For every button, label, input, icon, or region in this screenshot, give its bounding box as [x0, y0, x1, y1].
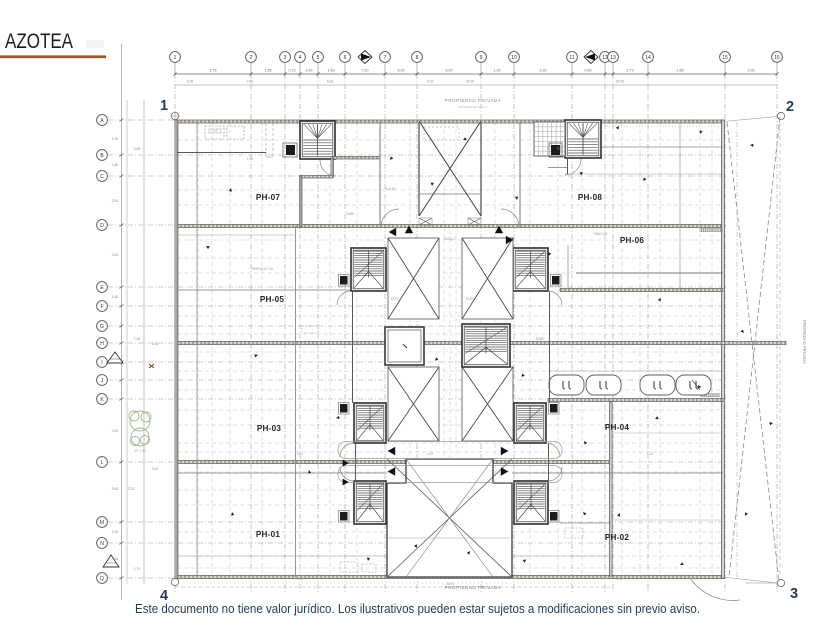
elevator shaft lower-right	[462, 367, 513, 441]
svg-text:ELEV: ELEV	[466, 297, 475, 301]
svg-text:3.40: 3.40	[112, 253, 119, 257]
svg-text:3.20: 3.20	[446, 69, 453, 73]
equipment box core f	[549, 511, 560, 523]
PH-07 closet dashed vertical b	[272, 123, 274, 157]
title underline	[0, 55, 106, 58]
entry arrow b	[405, 226, 413, 234]
driveway arc bottom-right	[690, 578, 740, 600]
interior wall row L	[178, 461, 611, 464]
PH-07 closet dashed vertical a	[265, 123, 267, 157]
svg-text:SUBE: SUBE	[346, 212, 355, 216]
PH-08 closet L-wall	[553, 123, 565, 139]
svg-text:5.10: 5.10	[327, 80, 334, 84]
PH-05 lower edge line	[177, 289, 388, 291]
door arc core mid-left	[340, 443, 354, 457]
svg-text:2.20: 2.20	[128, 487, 135, 491]
svg-text:PH-08: PH-08	[578, 193, 602, 202]
PH-01 lower shelf line	[177, 555, 611, 557]
dimension numbers row2	[187, 80, 625, 84]
entry arrow i	[343, 460, 349, 467]
svg-text:16: 16	[774, 55, 780, 61]
PH-06 interior line	[576, 272, 723, 274]
below-building offset dashed line	[175, 586, 611, 588]
PH-08 vertical service line	[679, 123, 681, 290]
svg-text:F: F	[100, 304, 103, 310]
svg-text:24.99: 24.99	[466, 80, 475, 84]
door arc PH-08 stair	[565, 159, 581, 175]
stairwell core upper-right	[513, 248, 548, 291]
PH-08 stub wall horizontal	[548, 167, 568, 169]
svg-text:3.75: 3.75	[210, 69, 217, 73]
pill 4 slash	[692, 380, 700, 390]
PH-07 partition horizontal	[177, 152, 266, 154]
svg-text:1.60: 1.60	[112, 163, 119, 167]
door arc core mid-left-upper	[337, 291, 351, 305]
door arc core mid-right	[546, 443, 560, 457]
property offset line right	[736, 122, 738, 577]
svg-text:1.20: 1.20	[647, 452, 653, 456]
svg-text:7.60: 7.60	[247, 80, 254, 84]
svg-text:13: 13	[610, 55, 616, 61]
equipment box PH-07 stair	[283, 143, 297, 157]
svg-text:G: G	[100, 324, 104, 330]
svg-text:PH-02: PH-02	[605, 533, 629, 542]
core left spine wall upper	[352, 291, 354, 403]
core right spine wall upper	[549, 291, 551, 403]
interior vertical wall right wing	[610, 402, 613, 576]
corridor outline lower	[338, 466, 562, 483]
svg-text:M: M	[100, 520, 104, 526]
svg-text:C: C	[100, 174, 104, 180]
PH-08 stub wall vertical	[567, 158, 569, 174]
faint smudge right of title	[86, 40, 104, 48]
svg-text:1.20: 1.20	[297, 577, 303, 581]
roof tub 1	[549, 375, 584, 395]
svg-text:3.30: 3.30	[540, 69, 547, 73]
dotted row under top wall right	[603, 125, 720, 127]
svg-text:PH-07: PH-07	[256, 193, 280, 202]
svg-text:0.90: 0.90	[557, 147, 563, 151]
svg-text:I: I	[101, 360, 102, 366]
svg-text:1.55: 1.55	[247, 157, 253, 161]
wall right of central shaft zone	[519, 122, 521, 226]
svg-text:9.30: 9.30	[398, 69, 405, 73]
svg-text:TINACOS: TINACOS	[593, 232, 607, 236]
PH-07 alcove wall right	[331, 158, 334, 177]
dashed cabinet PH-05	[302, 326, 318, 333]
svg-text:1.69: 1.69	[328, 69, 335, 73]
bottom shaft X brace d	[406, 459, 493, 577]
entry arrow h	[501, 467, 509, 475]
corner point 3	[777, 579, 784, 586]
door arc core low-left	[340, 467, 354, 481]
svg-text:0.73: 0.73	[289, 69, 296, 73]
svg-text:N.P.T.: N.P.T.	[201, 342, 209, 346]
tiled bathroom	[534, 122, 565, 156]
dashed box PH-02	[565, 528, 583, 538]
left dimension line 2	[143, 100, 145, 584]
central shaft X brace	[419, 121, 481, 216]
vertical grid lines	[175, 63, 777, 592]
corner point 2	[777, 112, 784, 119]
central shaft left wall	[418, 123, 420, 216]
outer wall top	[175, 120, 723, 123]
svg-text:2.73: 2.73	[627, 69, 634, 73]
core right spine wall lower	[548, 443, 550, 481]
svg-text:0.90: 0.90	[297, 452, 303, 456]
bottom shaft mid line	[387, 537, 512, 539]
comb detail right of wall D	[700, 229, 722, 232]
svg-text:PASILLO: PASILLO	[443, 237, 457, 241]
leader to corner 2	[723, 117, 777, 122]
left dimension numbers	[112, 137, 159, 571]
survey triangle lower	[103, 555, 119, 567]
interior wall row H	[178, 342, 786, 345]
left vertical reference line b	[126, 100, 128, 584]
svg-text:AZOTEA: AZOTEA	[5, 29, 74, 53]
kitchen fixtures dashed	[205, 126, 244, 139]
entry arrow e	[388, 447, 396, 455]
svg-text:0.90: 0.90	[585, 69, 592, 73]
equipment box core a	[339, 275, 350, 287]
door arc core top-right	[501, 209, 519, 227]
svg-text:15: 15	[722, 55, 728, 61]
PH-07 alcove wall bottom	[300, 176, 333, 179]
svg-text:9: 9	[480, 55, 483, 61]
svg-text:3.20: 3.20	[152, 467, 159, 471]
entry arrow f	[501, 447, 509, 455]
svg-text:B=0.45: B=0.45	[385, 187, 395, 191]
machine room	[385, 327, 424, 365]
svg-text:3: 3	[790, 586, 798, 602]
left dim ticks	[120, 119, 124, 580]
right edge dashed connector	[779, 122, 781, 577]
dashed detail in shaft top	[424, 127, 459, 140]
bottom shaft X brace c	[406, 459, 493, 577]
top dimension line 2	[175, 84, 777, 86]
outer wall right	[722, 120, 725, 579]
outer wall left	[175, 120, 178, 579]
top dimension line 1	[175, 73, 777, 75]
roof tub 2	[586, 375, 621, 395]
central shaft right wall	[480, 123, 482, 216]
wall above PH-04	[548, 399, 723, 402]
stairwell core mid-right	[514, 403, 546, 443]
stairwell core lower-right	[514, 481, 548, 524]
svg-text:1.70: 1.70	[134, 567, 141, 571]
svg-text:PH-04: PH-04	[605, 423, 629, 432]
red survey mark	[149, 364, 154, 368]
PH-02 mid line	[611, 519, 723, 521]
horizontal grid lines	[108, 120, 726, 578]
PH-01 corridor line a	[177, 472, 387, 474]
equipment box core b	[551, 275, 562, 287]
elevator shaft lower-left	[388, 367, 439, 441]
svg-text:6.35: 6.35	[187, 80, 194, 84]
PH-02 interior line	[560, 522, 611, 524]
property line diagonal b	[729, 117, 780, 577]
svg-text:Q: Q	[100, 576, 104, 582]
entry arrow g	[388, 467, 396, 475]
svg-text:PH-06: PH-06	[620, 236, 644, 245]
elevator shaft upper-right	[462, 238, 513, 319]
terrace edge line left rooms	[196, 123, 198, 575]
PH-08 interior line b	[565, 173, 723, 175]
svg-text:14: 14	[645, 55, 651, 61]
svg-text:3.60: 3.60	[112, 487, 119, 491]
svg-text:2.40: 2.40	[617, 577, 623, 581]
svg-text:9.10: 9.10	[427, 80, 434, 84]
svg-text:8: 8	[416, 55, 419, 61]
svg-text:PH-03: PH-03	[257, 424, 281, 433]
svg-text:2.40: 2.40	[306, 69, 313, 73]
svg-text:H: H	[100, 341, 104, 347]
dashed boxes bottom center	[340, 562, 358, 572]
svg-text:2: 2	[250, 55, 253, 61]
left wing partition vertical	[295, 226, 297, 577]
door arc PH-07 stair	[320, 160, 336, 176]
svg-text:7.20: 7.20	[362, 69, 369, 73]
PH-02 corridor line b	[512, 472, 723, 474]
pills band top line	[548, 370, 723, 372]
svg-text:6: 6	[344, 55, 347, 61]
tree sketch	[129, 411, 151, 446]
corner point 1	[170, 111, 180, 121]
svg-text:N.P.T.: N.P.T.	[201, 459, 209, 463]
door arc core top-left	[381, 209, 399, 227]
secondary vertical guide lines	[198, 122, 712, 577]
column grid bubbles 1-16	[170, 52, 783, 63]
equipment box core e	[339, 511, 350, 523]
svg-text:2.91: 2.91	[112, 199, 119, 203]
entry arrow j	[343, 479, 349, 486]
bottom shaft outline	[387, 459, 512, 577]
svg-text:36.90: 36.90	[446, 582, 454, 586]
svg-text:1.94: 1.94	[112, 530, 119, 534]
svg-text:PROPIEDAD PRIVADA: PROPIEDAD PRIVADA	[802, 320, 807, 364]
secondary horizontal guide lines	[177, 140, 723, 568]
svg-text:2.60: 2.60	[112, 429, 119, 433]
svg-text:D: D	[100, 223, 104, 229]
door arc core low-right	[548, 467, 562, 481]
svg-text:1: 1	[160, 98, 168, 114]
equipment box core c	[339, 403, 350, 415]
property line diagonal a	[727, 122, 779, 581]
PH-08 interior line a	[601, 146, 723, 148]
outer wall bottom	[175, 576, 723, 579]
PH-05 top shelf line	[177, 234, 295, 236]
svg-text:PH-01: PH-01	[256, 530, 280, 539]
svg-text:34.53: 34.53	[616, 80, 625, 84]
entry arrow d	[506, 236, 514, 244]
PH-04 mid line	[611, 432, 723, 434]
wall left of central shaft zone	[379, 122, 381, 226]
comb detail PH-06 right	[701, 394, 719, 397]
PH-07 alcove wall left	[300, 176, 303, 227]
leader to corner 3b	[723, 577, 777, 583]
svg-text:2.45: 2.45	[152, 342, 159, 346]
svg-text:1.30: 1.30	[494, 69, 501, 73]
svg-text:1.65: 1.65	[677, 69, 684, 73]
tiny annotation texts	[201, 147, 653, 586]
misc annotation marks	[206, 126, 773, 566]
svg-text:2.05: 2.05	[748, 69, 755, 73]
svg-text:7.45: 7.45	[134, 337, 141, 341]
dimension ticks line1	[174, 73, 779, 76]
stairwell core mid-left	[354, 403, 386, 443]
svg-text:4.05: 4.05	[134, 147, 141, 151]
PH-06 left partition	[567, 245, 569, 288]
svg-text:SUPERFICIE 34.53 m: SUPERFICIE 34.53 m	[458, 105, 488, 109]
roof tub 4	[676, 375, 711, 395]
PH-07 closet dashed bottom	[266, 156, 273, 158]
bottom shaft X brace a	[387, 459, 512, 577]
wall below PH-06	[560, 289, 723, 292]
svg-text:PH-05: PH-05	[260, 295, 284, 304]
north arrow marker A	[358, 51, 372, 64]
shaft sill marks right	[468, 218, 481, 225]
stairwell PH-08	[565, 120, 601, 158]
PH-07 wall segment right of stair	[333, 157, 380, 160]
svg-text:1.55: 1.55	[265, 69, 272, 73]
stairwell PH-07	[300, 121, 335, 159]
core left spine wall lower	[355, 443, 357, 481]
svg-text:7: 7	[384, 55, 387, 61]
svg-text:N: N	[100, 541, 104, 547]
equipment box PH-08 stair redraw	[549, 143, 562, 157]
svg-text:2: 2	[786, 99, 794, 115]
svg-text:5: 5	[317, 55, 320, 61]
svg-text:4: 4	[299, 55, 302, 61]
elevator shaft upper-left	[388, 238, 439, 319]
equipment box core d	[549, 403, 560, 415]
row grid bubbles A-Q	[97, 115, 108, 584]
svg-text:1.60: 1.60	[112, 295, 119, 299]
core center axis dashed	[449, 230, 451, 460]
svg-text:11: 11	[569, 55, 574, 61]
svg-text:12: 12	[602, 55, 608, 61]
svg-text:2P 1.50: 2P 1.50	[134, 449, 146, 453]
stairwell core center-right	[462, 324, 510, 367]
entry arrow a	[389, 228, 397, 236]
svg-text:1.90: 1.90	[112, 137, 119, 141]
north arrow marker B	[584, 51, 598, 64]
svg-text:PROPIEDAD PRIVADA: PROPIEDAD PRIVADA	[445, 98, 502, 103]
svg-text:ELEV: ELEV	[391, 297, 400, 301]
leader to corner 3	[745, 582, 778, 584]
interior wall row D	[178, 225, 721, 228]
roof tub 3	[640, 375, 675, 395]
svg-text:TERRAZA 7.45: TERRAZA 7.45	[251, 267, 273, 271]
svg-text:L: L	[101, 460, 104, 466]
corner point 4	[171, 578, 178, 585]
svg-text:10: 10	[511, 55, 517, 61]
dotted row above bottom wall	[190, 582, 600, 584]
dimension numbers row1	[210, 69, 755, 73]
svg-text:3: 3	[284, 55, 287, 61]
survey triangle upper	[107, 352, 123, 363]
svg-text:4.20: 4.20	[427, 452, 433, 456]
svg-text:SUBE: SUBE	[536, 337, 545, 341]
shaft sill marks left	[419, 218, 432, 225]
equipment box PH-08 stair	[549, 143, 563, 157]
entry arrow c	[495, 226, 503, 234]
corridor outline upper	[338, 442, 562, 459]
stairwell core lower-left	[354, 481, 386, 524]
svg-text:Este documento no tiene valor: Este documento no tiene valor jurídico. …	[135, 602, 700, 616]
door arc core mid-right-upper	[548, 291, 562, 305]
central shaft bottom line	[419, 193, 481, 195]
bottom shaft X brace b	[387, 459, 512, 577]
svg-text:1: 1	[174, 55, 177, 61]
left vertical reference line	[121, 44, 123, 600]
stairwell core upper-left	[351, 248, 386, 291]
